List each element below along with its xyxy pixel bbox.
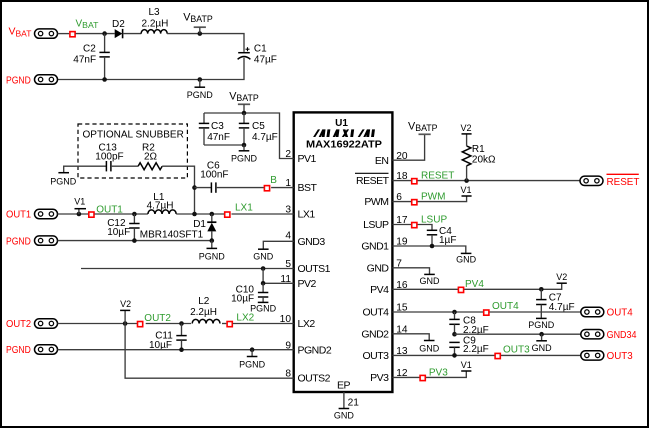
node PWM (red square) [412, 200, 417, 205]
wire node LX2 to pin 10 [233, 323, 294, 325]
svg-text:RESET: RESET [356, 175, 390, 187]
junction C10 top [261, 281, 266, 286]
svg-text:100nF: 100nF [200, 169, 228, 180]
svg-text:GND2: GND2 [361, 328, 389, 340]
svg-text:PGND2: PGND2 [298, 344, 332, 356]
node OUT3 (red square) [495, 353, 500, 358]
wire node to D2 [76, 33, 115, 35]
supply flag V2 (OUT2) [120, 299, 131, 324]
svg-text:GND: GND [420, 276, 441, 286]
wire OUTS1 sense line (pin 5) [81, 268, 294, 270]
capacitor C6 100nF [200, 160, 228, 193]
svg-text:VBATP: VBATP [183, 11, 213, 24]
svg-text:RESET: RESET [421, 170, 454, 181]
svg-text:GND: GND [419, 344, 440, 354]
connector OUT4 [581, 307, 604, 316]
capacitor C8 2.2uF [449, 312, 488, 336]
label RESET (red, with overline) [607, 174, 640, 188]
wire node OUT1 to L1 [95, 213, 148, 215]
supply flag VBATP (top) [183, 11, 213, 33]
ground PGND (under C5) [231, 145, 258, 164]
svg-text:GND: GND [334, 410, 355, 420]
capacitor C9 2.2uF [449, 336, 488, 356]
wire VBATP rail to PV1 pin 2 [204, 113, 294, 159]
svg-text:2.2µH: 2.2µH [142, 18, 169, 29]
junction PGND sym row3 [250, 347, 255, 352]
wire C6 to node B [216, 187, 265, 189]
connector GND34 [581, 330, 604, 339]
wire node OUT2 to L2 [146, 323, 191, 325]
ground GND (pin 7) [420, 274, 441, 286]
ground PGND (under C10) [250, 302, 277, 313]
junction C8/C9 midpoint [452, 332, 457, 337]
ground GND (EP) [334, 409, 355, 421]
svg-text:GND: GND [253, 251, 274, 261]
svg-text:OUTS2: OUTS2 [298, 373, 331, 385]
svg-text:D1: D1 [193, 219, 206, 230]
node B (red square) [264, 186, 269, 191]
connector PGND (row3) [35, 345, 58, 354]
supply flag VBATP (EN) [408, 121, 438, 135]
wire D2 to L3 [123, 33, 142, 35]
svg-text:C2: C2 [83, 44, 96, 55]
connector PGND (row2) [35, 236, 58, 245]
svg-text:GND: GND [532, 343, 553, 353]
inductor L2 2.2uH [190, 296, 220, 324]
svg-text:PWM: PWM [421, 192, 445, 203]
svg-text:GND1: GND1 [361, 241, 389, 253]
wire C1 bottom to ground rail [58, 58, 245, 80]
svg-text:RESET: RESET [607, 176, 640, 188]
node PV3 (red square) [420, 375, 425, 380]
capacitor C4 1uF [427, 226, 457, 246]
capacitor C12 10uF [107, 214, 139, 241]
svg-text:EP: EP [337, 380, 351, 392]
wire node B to BST pin 1 [271, 187, 294, 189]
svg-text:VBAT: VBAT [76, 18, 100, 30]
svg-text:PV3: PV3 [429, 368, 448, 379]
svg-text:VBATP: VBATP [229, 91, 259, 104]
svg-text:GND34: GND34 [607, 329, 637, 341]
svg-text:LSUP: LSUP [421, 214, 447, 225]
svg-text:21: 21 [348, 397, 360, 408]
svg-text:LX1: LX1 [298, 209, 316, 221]
wire C6 left [195, 187, 212, 189]
ground GND (pin 14 GND2) [392, 334, 439, 354]
svg-text:PGND: PGND [50, 176, 77, 186]
svg-text:PGND: PGND [199, 251, 226, 261]
connector OUT1 [35, 209, 58, 218]
svg-text:PGND: PGND [239, 359, 266, 369]
pin label RESET (with overline) [355, 173, 390, 187]
junction D1 top [210, 212, 215, 217]
svg-text:PGND: PGND [6, 74, 31, 86]
svg-text:PGND: PGND [231, 154, 258, 164]
capacitor C1 47uF (polarized) [238, 44, 277, 66]
capacitor C3 47nF [199, 113, 230, 145]
svg-text:GND: GND [367, 262, 390, 274]
svg-text:PV1: PV1 [298, 153, 317, 165]
wire RESET pin 18 row [392, 180, 580, 182]
wire C3/C5 bottom rail [204, 144, 244, 146]
inductor L1 4.7uH [147, 192, 177, 214]
svg-text:4.7µF: 4.7µF [252, 132, 278, 143]
capacitor C7 4.7uF [536, 289, 574, 318]
svg-text:OUT4: OUT4 [492, 301, 519, 312]
junction C12 bottom [132, 238, 137, 243]
wire PV2 branch to pin 11 [263, 269, 294, 284]
svg-text:MBR140SFT1: MBR140SFT1 [140, 230, 204, 241]
capacitor C11 10uF [149, 324, 187, 351]
junction C11/L2 [179, 321, 184, 326]
svg-text:4.7µH: 4.7µH [147, 201, 174, 212]
svg-text:V2: V2 [556, 272, 567, 282]
wire OUT2 connector to node [58, 323, 140, 325]
node LX1 (red square) [225, 212, 230, 217]
connector OUT3 [581, 351, 604, 360]
wire PGND rail row2 [58, 240, 212, 242]
junction C2 top [102, 31, 107, 36]
capacitor C2 47nF [73, 34, 110, 80]
svg-text:PGND: PGND [6, 344, 31, 356]
wire OUT1 connector to node [58, 213, 89, 215]
svg-text:20kΩ: 20kΩ [472, 155, 496, 166]
junction C11 bottom [179, 347, 184, 352]
wire OUT3 pin 13 row [392, 354, 580, 356]
junction GND34 gnd [539, 332, 544, 337]
svg-text:R1: R1 [472, 144, 485, 155]
svg-text:LX2: LX2 [236, 313, 254, 324]
wire OUT4 pin 15 row [392, 311, 580, 313]
junction PGND rail [198, 77, 203, 82]
wire L2 to LX2 node [222, 323, 226, 325]
junction C9 bottom [452, 353, 457, 358]
junction C5 bottom [242, 143, 247, 148]
wire PGND rail row3 to pin 9 [58, 349, 294, 351]
svg-text:100pF: 100pF [95, 152, 123, 163]
wire GND pin 7 [392, 268, 429, 274]
IC U1 MAX16922ATP body [294, 112, 393, 392]
svg-text:C1: C1 [254, 44, 267, 55]
svg-text:OUT3: OUT3 [362, 350, 389, 362]
svg-text:PWM: PWM [364, 196, 388, 208]
wire L1 to LX1 node [176, 213, 225, 215]
wire GND1 pin 19 [392, 246, 465, 253]
svg-text:V1: V1 [461, 360, 472, 370]
supply flag V1 (OUT1) [74, 197, 86, 214]
svg-text:47nF: 47nF [73, 54, 96, 65]
ground GND (GND34 row) [532, 334, 553, 353]
MAXIM logo [313, 129, 375, 137]
svg-text:OUT4: OUT4 [362, 307, 389, 319]
inductor L3 2.2uH [141, 7, 168, 33]
diode D2 [112, 19, 125, 38]
svg-text:L3: L3 [149, 7, 161, 18]
resistor R1 20k [462, 134, 496, 181]
capacitor C10 10uF [231, 283, 268, 304]
ground PGND (under C7) [528, 318, 555, 330]
svg-text:V1: V1 [461, 185, 472, 195]
svg-text:OPTIONAL SNUBBER: OPTIONAL SNUBBER [83, 130, 184, 141]
node OUT1 (red square) [89, 212, 94, 217]
svg-text:GND3: GND3 [298, 236, 326, 248]
wire snubber left leg [64, 166, 106, 172]
svg-text:47nF: 47nF [207, 132, 230, 143]
ground GND (pin 4 GND3) [253, 241, 293, 261]
svg-text:2Ω: 2Ω [144, 152, 158, 163]
svg-text:PV2: PV2 [298, 278, 317, 290]
svg-text:PGND: PGND [187, 90, 214, 100]
node RESET (red square) [412, 179, 417, 184]
svg-text:OUT3: OUT3 [607, 350, 633, 362]
junction C8 top [452, 310, 457, 315]
wire PWM pin 6 [392, 196, 466, 202]
svg-text:PV4: PV4 [465, 279, 484, 290]
svg-text:B: B [270, 175, 277, 186]
ground PGND (snubber) [50, 173, 77, 187]
supply flag V2 (PV4) [556, 272, 567, 283]
wire PV3 pin 12 [392, 371, 466, 377]
supply flag V1 (PWM) [461, 185, 472, 196]
wire VBAT connector to node [58, 33, 70, 35]
junction snubber bus / LX1 [192, 212, 197, 217]
node OUT2 (red square) [138, 322, 143, 327]
svg-text:OUT2: OUT2 [144, 313, 171, 324]
node OUT4 (red square) [484, 310, 489, 315]
svg-text:47µF: 47µF [254, 55, 277, 66]
wire node LX1 to pin 3 [232, 213, 294, 215]
node LSUP (red square) [412, 223, 417, 228]
wire L3 to C1 corner [167, 34, 244, 52]
supply flag VBATP (over C3/C5) [229, 91, 259, 113]
svg-text:OUT4: OUT4 [607, 307, 633, 319]
junction VBATP [198, 31, 203, 36]
svg-text:EN: EN [375, 155, 389, 167]
wire EN pin 20 to VBATP [392, 135, 424, 161]
node VBAT (red square) [70, 32, 75, 37]
svg-text:L2: L2 [198, 296, 210, 307]
wire GND34 row [455, 333, 581, 335]
ground PGND (row3) [239, 350, 266, 370]
connector PGND (top) [35, 75, 58, 84]
svg-text:1µF: 1µF [439, 235, 456, 246]
junction C4 bottom [430, 244, 435, 249]
svg-text:10µF: 10µF [107, 227, 130, 238]
svg-text:OUT1: OUT1 [6, 209, 31, 221]
ground PGND (under D1) [199, 241, 226, 262]
svg-text:V2: V2 [461, 123, 472, 133]
svg-text:OUT2: OUT2 [6, 318, 31, 330]
svg-text:4.7µF: 4.7µF [549, 302, 575, 313]
svg-text:C5: C5 [252, 121, 265, 132]
wire OUTS2 feedback (V2 node to pin 8) [125, 324, 294, 379]
junction BST line [192, 185, 197, 190]
junction PV2 branch [261, 266, 266, 271]
junction C5 top [242, 111, 247, 116]
junction C7 top [539, 287, 544, 292]
svg-text:LSUP: LSUP [363, 219, 389, 231]
svg-text:PV4: PV4 [370, 284, 389, 296]
wire LSUP pin 17 [392, 225, 432, 230]
svg-text:2.2µH: 2.2µH [190, 307, 217, 318]
svg-text:V1: V1 [74, 197, 85, 207]
diode D1 MBR140SFT1 [140, 214, 217, 241]
node LX2 (red square) [227, 322, 232, 327]
connector VBAT [35, 29, 58, 38]
svg-text:OUTS1: OUTS1 [298, 263, 331, 275]
capacitor C13 100pF [95, 142, 123, 171]
node PV4 (red square) [458, 287, 463, 292]
ground PGND (top rail) [187, 80, 214, 101]
junction V1 [77, 212, 82, 217]
wire C13 to R2 [111, 165, 138, 167]
svg-text:D2: D2 [112, 19, 125, 30]
svg-text:2.2µF: 2.2µF [463, 344, 489, 355]
wire R2 to vertical bus [162, 166, 194, 214]
junction R1 bottom [464, 178, 469, 183]
svg-text:PGND: PGND [528, 320, 555, 330]
wire EP pin 21 [343, 392, 345, 408]
connector OUT2 [35, 319, 58, 328]
svg-text:VBATP: VBATP [408, 121, 438, 134]
svg-text:PV3: PV3 [370, 372, 389, 384]
junction D1 bottom [210, 238, 215, 243]
junction C12 top [132, 212, 137, 217]
capacitor C5 4.7uF [239, 113, 278, 145]
supply flag V1 (PV3) [461, 360, 472, 371]
svg-text:C3: C3 [211, 121, 224, 132]
svg-text:LX1: LX1 [235, 203, 253, 214]
wire PV4 pin 16 to V2 [392, 283, 561, 289]
svg-text:4: 4 [285, 231, 291, 242]
svg-text:U1: U1 [335, 118, 348, 129]
svg-text:OUT3: OUT3 [503, 344, 530, 355]
svg-text:BST: BST [298, 182, 318, 194]
supply flag V2 (R1) [461, 123, 472, 134]
snubber dashed box [78, 124, 187, 178]
svg-text:MAX16922ATP: MAX16922ATP [306, 140, 382, 151]
ground GND (pin 19) [456, 253, 477, 264]
connector RESET [580, 176, 603, 185]
svg-text:PGND: PGND [6, 235, 31, 247]
svg-text:GND: GND [456, 255, 477, 265]
resistor R2 2ohm [138, 142, 162, 169]
junction C2 bottom [102, 77, 107, 82]
svg-text:LX2: LX2 [298, 318, 316, 330]
junction V2 / feedback [123, 321, 128, 326]
svg-text:V2: V2 [120, 299, 131, 309]
